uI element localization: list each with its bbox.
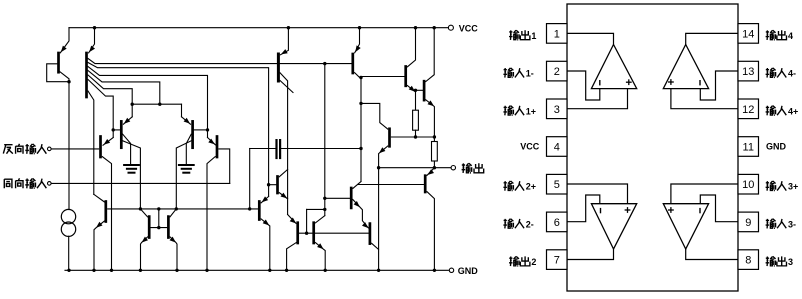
- svg-text:4-: 4-: [788, 69, 796, 79]
- svg-text:5: 5: [554, 179, 560, 191]
- svg-text:3+: 3+: [788, 182, 798, 192]
- svg-text:GND: GND: [766, 142, 787, 152]
- svg-text:2: 2: [554, 66, 560, 78]
- svg-text:9: 9: [745, 217, 751, 229]
- svg-text:3: 3: [788, 257, 793, 267]
- svg-text:1: 1: [554, 28, 560, 40]
- svg-text:GND: GND: [458, 266, 479, 276]
- svg-text:1+: 1+: [526, 106, 536, 116]
- svg-text:8: 8: [745, 255, 751, 267]
- svg-text:2-: 2-: [526, 219, 534, 229]
- svg-text:3: 3: [554, 104, 560, 116]
- svg-text:4: 4: [788, 31, 793, 41]
- svg-text:4: 4: [554, 142, 560, 154]
- svg-text:2+: 2+: [526, 182, 536, 192]
- svg-text:10: 10: [742, 179, 754, 191]
- svg-text:7: 7: [554, 255, 560, 267]
- svg-text:11: 11: [743, 142, 754, 154]
- svg-text:2: 2: [531, 257, 536, 267]
- svg-text:VCC: VCC: [520, 142, 540, 152]
- svg-text:1-: 1-: [526, 69, 534, 79]
- svg-text:VCC: VCC: [459, 23, 479, 33]
- svg-text:3-: 3-: [788, 219, 796, 229]
- svg-text:12: 12: [742, 104, 754, 116]
- svg-text:13: 13: [742, 66, 754, 78]
- svg-text:6: 6: [554, 217, 560, 229]
- svg-text:14: 14: [742, 28, 754, 40]
- svg-text:1: 1: [531, 31, 536, 41]
- svg-text:4+: 4+: [788, 106, 798, 116]
